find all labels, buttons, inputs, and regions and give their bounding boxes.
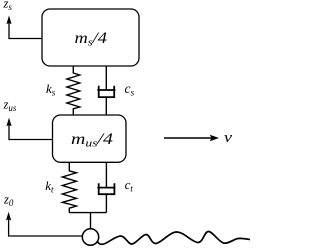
svg-text:cs: cs (125, 81, 135, 99)
svg-text:zus: zus (3, 98, 17, 114)
svg-text:zs: zs (3, 0, 13, 12)
velocity arrow v (164, 137, 212, 139)
sprung mass box m_s/4 (42, 9, 139, 66)
svg-text:ct: ct (125, 177, 134, 194)
road wave (97, 231, 250, 244)
z_0 wire (9, 218, 83, 236)
spring k_t (62, 163, 76, 213)
z_us wire (9, 124, 53, 140)
bottom bar joining k_t and c_t (69, 212, 106, 214)
v arrowhead (210, 135, 219, 141)
z_0 arrowhead (6, 212, 11, 221)
unsprung mass box m_us/4 (53, 115, 127, 162)
svg-text:kt: kt (45, 178, 54, 195)
z_s arrowhead (6, 16, 11, 25)
svg-text:ks: ks (46, 81, 56, 98)
rod to wheel (90, 213, 92, 229)
svg-text:ms/4: ms/4 (75, 30, 108, 49)
damper c_s (97, 66, 115, 115)
z_s wire (9, 22, 42, 39)
spring k_s (67, 66, 80, 115)
svg-text:v: v (224, 130, 232, 146)
svg-text:z0: z0 (3, 193, 14, 209)
z_us arrowhead (6, 118, 11, 127)
svg-text:mus/4: mus/4 (71, 131, 113, 150)
damper c_t (97, 163, 115, 213)
wheel contact circle (82, 229, 98, 245)
